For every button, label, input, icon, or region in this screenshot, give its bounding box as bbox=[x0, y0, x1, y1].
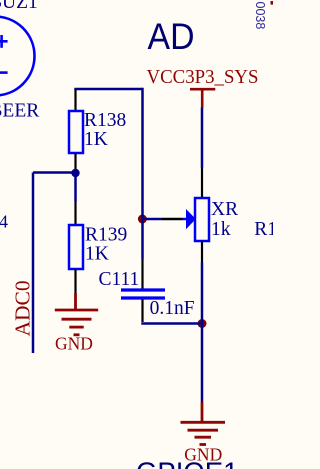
potentiometer XR wiper lead bbox=[183, 218, 189, 221]
wire VCC to potentiometer bbox=[201, 108, 204, 169]
wire from junction to left (ADC0 net) bbox=[33, 171, 76, 174]
svg-text:R139: R139 bbox=[85, 225, 127, 246]
wire vertical ADC0 stub bbox=[32, 173, 35, 354]
buzzer plus mark bbox=[0, 35, 8, 48]
resistor R138 body bbox=[69, 111, 83, 153]
ground symbol GND below R139 bbox=[55, 293, 98, 335]
svg-text:1K: 1K bbox=[84, 129, 108, 150]
potentiometer XR wiper arrow bbox=[186, 209, 196, 229]
power symbol VCC3P3_SYS bar bbox=[190, 89, 215, 107]
svg-text:0.1nF: 0.1nF bbox=[150, 298, 195, 319]
wire potentiometer to ground bbox=[201, 263, 204, 403]
buzzer BUZ1 circle bbox=[0, 17, 35, 96]
svg-text:R140: R140 bbox=[254, 219, 273, 240]
potentiometer XR pin 3 bbox=[201, 241, 203, 263]
svg-text:1K: 1K bbox=[85, 244, 109, 265]
svg-text:GPIOE1: GPIOE1 bbox=[136, 457, 238, 469]
resistor R139 pin 2 bbox=[74, 269, 76, 293]
svg-text:0038: 0038 bbox=[253, 2, 267, 30]
wire capacitor bottom to pot column bbox=[141, 322, 202, 325]
resistor R139 pin 1 bbox=[74, 201, 76, 225]
capacitor C111 pin 1 bbox=[141, 259, 143, 289]
ground symbol GND bottom bbox=[181, 402, 226, 445]
svg-text:1k: 1k bbox=[211, 219, 231, 240]
svg-text:VCC3P3_SYS: VCC3P3_SYS bbox=[147, 67, 259, 88]
wire junction to wiper bbox=[142, 218, 162, 221]
capacitor C111 pin 2 bbox=[141, 300, 143, 323]
svg-text:BUZ1: BUZ1 bbox=[0, 0, 38, 13]
junction between R138 and R139 bbox=[71, 169, 79, 177]
svg-text:AD: AD bbox=[148, 16, 195, 57]
junction at pot column (under wires) bbox=[198, 319, 207, 328]
svg-text:C111: C111 bbox=[99, 269, 140, 290]
buzzer minus mark bbox=[0, 71, 8, 74]
resistor R139 body bbox=[69, 225, 83, 269]
svg-text:R138: R138 bbox=[84, 110, 126, 131]
resistor R138 pin 1 bbox=[74, 89, 76, 111]
red fragment top-right corner bbox=[271, 1, 274, 5]
resistor R138 pin 2 bbox=[74, 153, 76, 170]
wire top horizontal R138 to C111 column bbox=[74, 88, 142, 91]
junction on VCC column feeding wiper (under wires) bbox=[138, 215, 147, 224]
potentiometer XR pin 1 bbox=[201, 168, 203, 198]
potentiometer XR wiper pin bbox=[162, 218, 183, 220]
svg-text:BEER: BEER bbox=[0, 101, 39, 122]
wire vertical C111 column bbox=[141, 88, 144, 259]
svg-text:4: 4 bbox=[0, 212, 8, 232]
capacitor C111 plates bbox=[121, 290, 165, 298]
svg-text:GND: GND bbox=[55, 334, 93, 354]
potentiometer XR body bbox=[195, 198, 209, 241]
svg-text:ADC0: ADC0 bbox=[10, 280, 34, 336]
svg-text:XR: XR bbox=[211, 199, 238, 220]
wire junction to R139 bbox=[74, 173, 77, 201]
